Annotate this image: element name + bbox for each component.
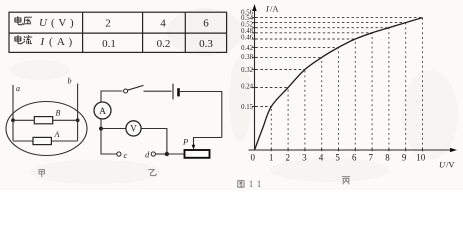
svg-text:0.3: 0.3 (199, 38, 213, 50)
svg-text:6: 6 (203, 17, 209, 29)
svg-text:0.48: 0.48 (241, 28, 253, 35)
svg-text:4: 4 (160, 17, 166, 29)
y-axis (254, 9, 256, 150)
node junction right (76, 118, 80, 122)
svg-text:0.46: 0.46 (241, 35, 253, 42)
wire terminal b lead (77, 84, 79, 141)
svg-text:c: c (124, 150, 128, 160)
svg-text:2: 2 (105, 17, 111, 29)
dashed gridlines vertical (271, 18, 422, 150)
svg-text:0.32: 0.32 (241, 67, 253, 74)
wire left drop to terminal c (101, 129, 117, 155)
caption jia (39, 169, 44, 176)
table header voltage U(V) (15, 17, 23, 25)
table header current I(A) (15, 36, 23, 44)
x-axis numerals (251, 152, 426, 162)
switch S blade (128, 85, 144, 90)
svg-text:A: A (99, 107, 106, 117)
I-V curve (255, 18, 423, 150)
resistor A (33, 137, 51, 144)
svg-text:): ) (69, 36, 73, 48)
voltmeter V1 (126, 121, 141, 136)
svg-text:9: 9 (402, 152, 407, 162)
wire top left segment (101, 91, 123, 103)
table current values 0.1 0.2 0.3 (102, 38, 213, 50)
wire junction to rheostat (167, 153, 185, 155)
svg-text:0.15: 0.15 (241, 104, 253, 111)
svg-text:1: 1 (249, 179, 254, 189)
battery long plate (172, 84, 174, 100)
wire junction to voltmeter (101, 128, 126, 130)
node junction left (11, 118, 15, 122)
dashed gridlines horizontal (256, 18, 423, 107)
svg-text:V: V (130, 124, 137, 134)
svg-text:1: 1 (257, 179, 262, 189)
wire switch to battery (144, 90, 172, 92)
svg-text:/V: /V (446, 160, 455, 170)
svg-text:a: a (16, 84, 20, 93)
svg-text:(: ( (51, 17, 55, 29)
svg-text:2: 2 (285, 152, 290, 162)
svg-text:U: U (39, 17, 48, 29)
svg-text:7: 7 (369, 152, 374, 162)
svg-text:0.1: 0.1 (102, 38, 116, 50)
svg-text:10: 10 (416, 152, 426, 162)
svg-text:0: 0 (251, 152, 256, 162)
slider arrow (192, 145, 196, 150)
wire battery to right corner down (180, 92, 222, 138)
svg-text:P: P (182, 137, 188, 147)
svg-text:0.2: 0.2 (157, 38, 171, 50)
x-axis ticks (271, 148, 422, 151)
svg-text:V: V (58, 17, 66, 29)
svg-text:3: 3 (302, 152, 307, 162)
wire voltmeter to bottom junction (141, 129, 167, 155)
svg-text:8: 8 (385, 152, 390, 162)
wire top branch (13, 119, 78, 121)
x-axis (249, 149, 453, 151)
caption bing (342, 177, 350, 184)
wire terminal a lead (12, 85, 14, 141)
svg-text:1: 1 (269, 152, 274, 162)
wire terminal d to junction (155, 153, 167, 155)
y-axis tick labels (241, 10, 253, 112)
caption figure 11 (238, 181, 244, 187)
svg-text:6: 6 (352, 152, 357, 162)
wire bottom branch (13, 140, 78, 142)
switch S pivot (124, 89, 128, 93)
terminal c (117, 152, 121, 156)
svg-text:): ) (70, 17, 74, 29)
svg-text:(: ( (49, 36, 53, 48)
svg-text:0.52: 0.52 (241, 22, 253, 29)
svg-text:U: U (439, 160, 446, 170)
battery short plate (177, 88, 180, 96)
table grid (9, 12, 227, 52)
device boundary oval (6, 102, 87, 156)
svg-text:5: 5 (335, 152, 340, 162)
svg-text:4: 4 (319, 152, 324, 162)
svg-text:A: A (57, 36, 65, 48)
svg-text:0.42: 0.42 (241, 45, 253, 52)
wire to slider arm (194, 138, 222, 146)
svg-text:b: b (68, 77, 72, 86)
ammeter A1 (94, 102, 111, 119)
table voltage values 2 4 6 (105, 17, 209, 29)
caption yi (149, 169, 157, 175)
node junction bottom (165, 152, 169, 156)
svg-text:A: A (54, 130, 60, 139)
svg-text:0.24: 0.24 (241, 84, 253, 91)
resistor B (34, 117, 52, 124)
svg-text:/A: /A (270, 4, 279, 14)
svg-text:0.56: 0.56 (241, 10, 253, 17)
svg-text:B: B (56, 109, 61, 118)
terminal d (151, 152, 155, 156)
node junction below ammeter (99, 127, 103, 131)
y-axis ticks (252, 18, 257, 107)
rheostat R (185, 150, 210, 158)
svg-text:0.38: 0.38 (241, 54, 253, 61)
wire ammeter to junction (100, 119, 102, 129)
